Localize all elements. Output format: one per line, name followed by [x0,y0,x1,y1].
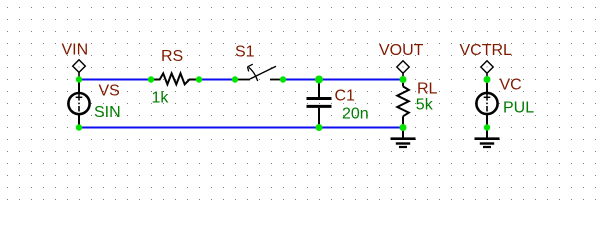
voltage source VC symbol [476,80,497,128]
resistor RS body [151,73,199,84]
resistor RL body [397,80,409,128]
svg-text:C1: C1 [335,87,356,104]
wire: RS right terminal to S1 left terminal [199,79,235,81]
junction dot: C1 top junction on top rail [315,76,323,84]
svg-text:1k: 1k [152,90,170,107]
junction dot: VOUT node / RL top [400,76,407,83]
wire: S1 right terminal to VOUT node (through C1 top junction) [283,79,403,81]
svg-text:PUL: PUL [503,100,534,117]
svg-text:VC: VC [500,76,522,93]
junction dot: RS left terminal [148,76,154,82]
wire top rail: VIN node to RS left terminal [79,79,151,81]
svg-text:VOUT: VOUT [379,42,424,59]
svg-text:RL: RL [417,80,438,97]
svg-text:VIN: VIN [62,42,89,59]
node VOUT diamond marker [397,61,409,80]
wire bottom rail: VS bottom to RL bottom (through C1 bottom junction) [79,127,403,129]
junction dot: S1 left terminal [232,76,238,82]
junction dot: RL bottom / ground connection [400,124,407,131]
junction dot: S1 right terminal [280,76,286,82]
voltage source VS symbol [68,80,89,128]
svg-text:5k: 5k [416,96,434,113]
node VIN diamond marker [73,60,86,80]
svg-text:VS: VS [99,83,120,100]
svg-text:VCTRL: VCTRL [460,42,513,59]
svg-text:RS: RS [161,48,183,65]
junction dot: VCTRL node / VC top [484,76,491,83]
ground under RL [391,128,416,148]
capacitor C1 symbol [307,80,332,128]
ground under VC [475,128,500,148]
junction dot: VC bottom / ground connection [484,124,490,130]
junction dot: C1 bottom junction on bottom rail [316,124,323,131]
junction dot: RS right terminal [196,76,202,82]
junction dot: VIN node on top rail [76,76,82,82]
node VCTRL diamond marker [481,61,493,80]
switch S1 symbol [235,64,283,81]
junction dot: VS bottom on bottom rail [76,124,82,130]
svg-text:SIN: SIN [94,104,121,121]
svg-text:20n: 20n [342,105,369,122]
svg-text:S1: S1 [235,43,255,60]
